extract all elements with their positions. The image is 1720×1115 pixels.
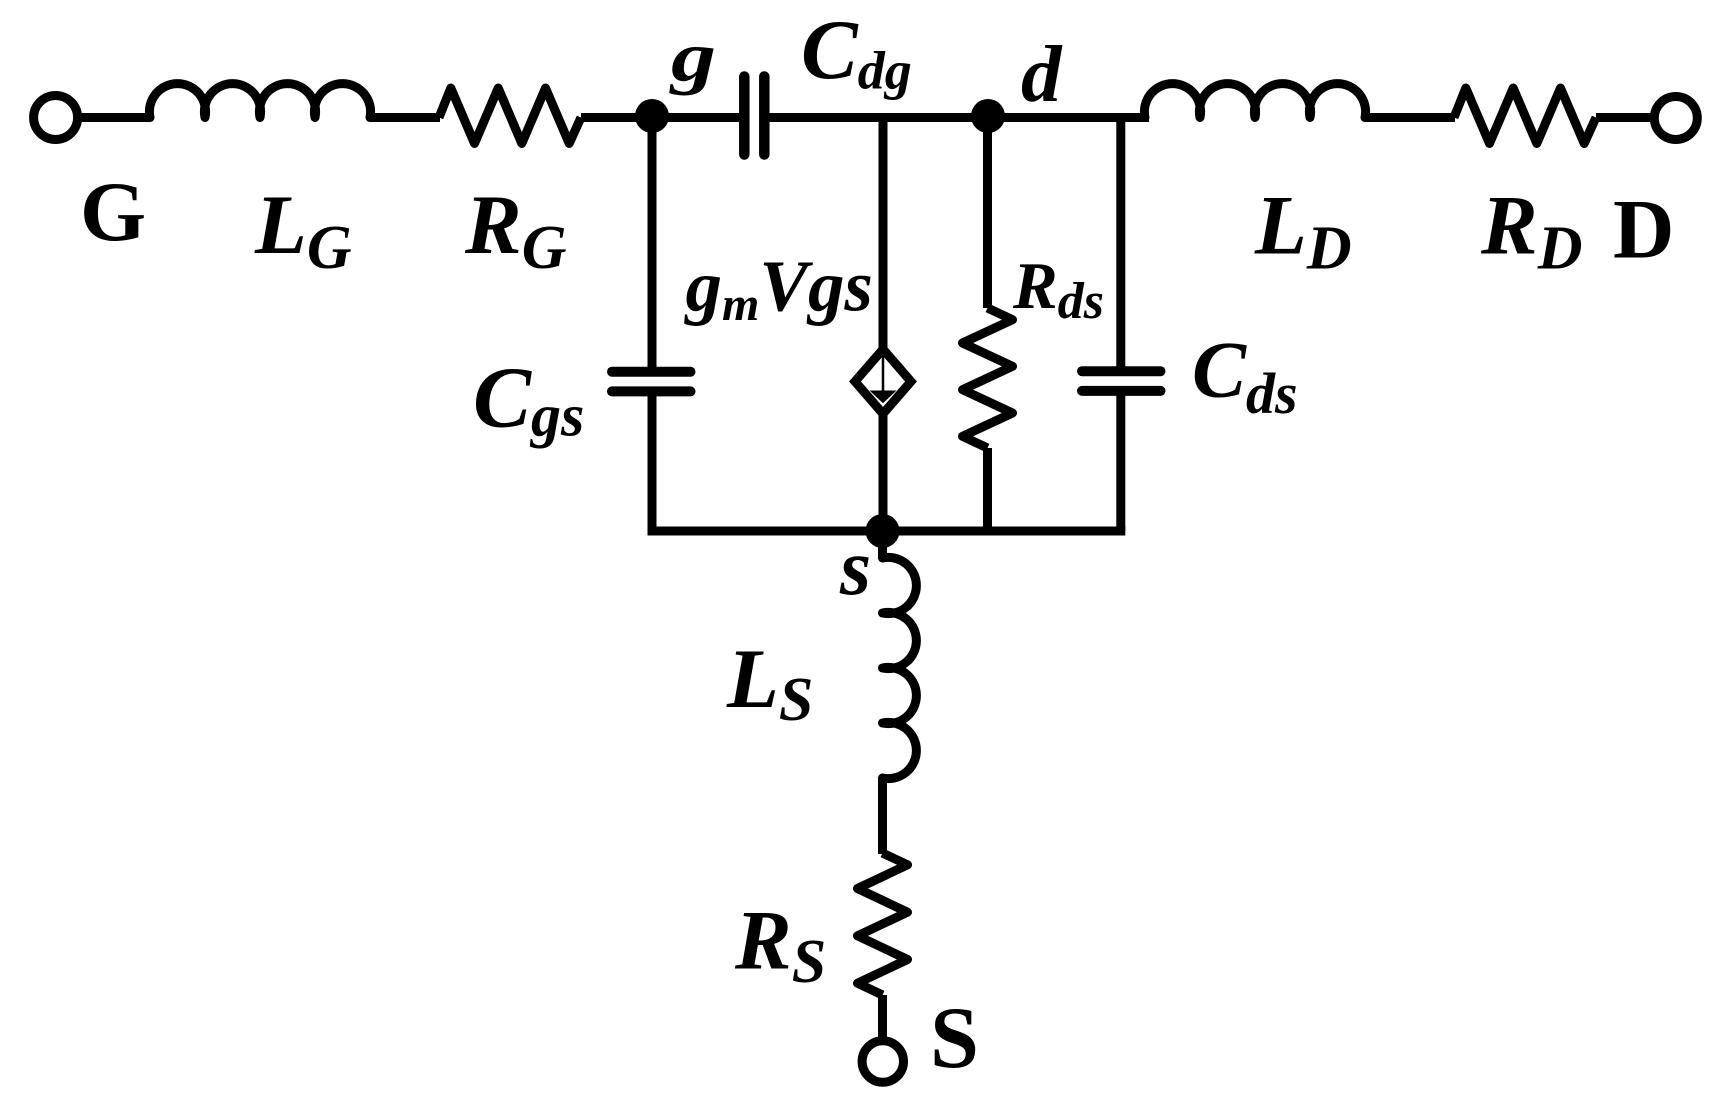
wire: [769, 113, 1149, 122]
wire: [77, 113, 151, 122]
svg-text:D: D: [1613, 183, 1674, 277]
wire: [1116, 118, 1125, 368]
svg-text:s: s: [839, 524, 871, 612]
resistor Rds: [963, 308, 1013, 448]
wire: [983, 448, 992, 531]
current source gmVgs: [855, 349, 911, 414]
capacitor Cgs: [612, 372, 691, 392]
node s: [866, 514, 900, 548]
inductor LG: [149, 84, 370, 118]
svg-text:d: d: [1021, 29, 1063, 119]
wire: [370, 113, 440, 122]
wire: [1365, 113, 1455, 122]
capacitor Cds: [1082, 371, 1161, 391]
capacitor Cdg: [744, 77, 764, 155]
svg-text:S: S: [930, 990, 979, 1087]
terminal D: [1654, 97, 1697, 140]
terminal G: [34, 96, 78, 140]
wire: [581, 113, 653, 122]
wire: [652, 113, 739, 122]
terminal S: [862, 1041, 903, 1082]
wire: [648, 527, 1126, 536]
wire: [1116, 395, 1125, 531]
inductor LS: [883, 557, 917, 778]
wire: [648, 396, 657, 531]
wire: [879, 411, 888, 531]
resistor RG: [439, 88, 581, 144]
svg-text:g: g: [668, 19, 716, 97]
node g: [635, 99, 669, 133]
inductor LD: [1144, 84, 1365, 118]
wire: [878, 778, 887, 854]
resistor RD: [1454, 88, 1596, 144]
wire: [878, 995, 887, 1041]
wire: [879, 118, 888, 353]
wire: [648, 118, 657, 368]
resistor RS: [858, 853, 908, 995]
wire: [1596, 113, 1655, 122]
wire: [878, 531, 887, 559]
wire: [983, 118, 992, 309]
node d: [971, 99, 1005, 133]
svg-text:G: G: [80, 165, 146, 259]
svg-text:gmVgs: gmVgs: [684, 246, 873, 332]
